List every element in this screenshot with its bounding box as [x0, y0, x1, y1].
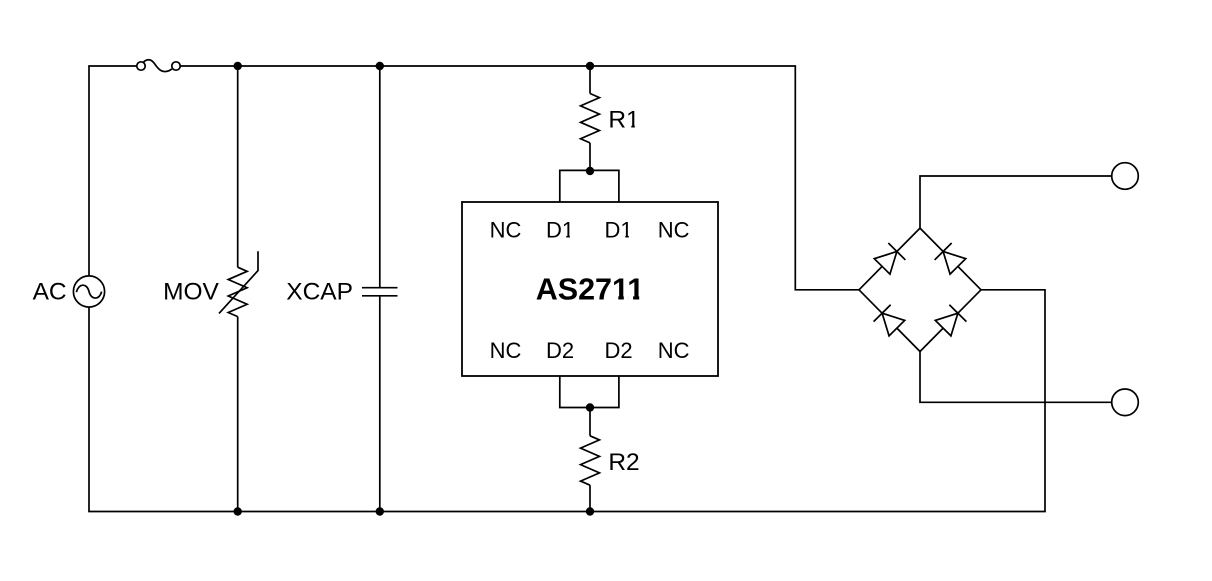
wire MOV branch lower: [237, 317, 239, 512]
svg-text:NC: NC: [490, 338, 522, 363]
svg-text:NC: NC: [490, 218, 522, 243]
junction dot IC bottom pins / R2: [586, 403, 594, 411]
varistor MOV diagonal stroke with tail: [219, 251, 258, 313]
junction dot top rail / MOV: [234, 62, 242, 70]
svg-text:NC: NC: [658, 338, 690, 363]
wire top-left horizontal segment: [88, 65, 137, 67]
terminal DC- circle: [1112, 389, 1139, 416]
junction dot bottom rail / R2: [586, 507, 594, 515]
junction dot bottom rail / XCAP: [376, 507, 384, 515]
wire XCAP branch lower: [379, 296, 381, 512]
AC source sine wave: [76, 285, 101, 298]
IC AS2711 body: [462, 202, 718, 376]
wire from top rail down to bridge left vertex: [795, 66, 859, 290]
glyph serif masks for digit 1: [563, 125, 644, 300]
wire XCAP branch upper: [379, 66, 381, 288]
wire bridge right vertex to bottom rail: [981, 290, 1045, 512]
bridge diode bottom-left triangle: [882, 313, 905, 336]
diode bridge diamond edge top-left: [859, 228, 920, 290]
svg-text:XCAP: XCAP: [286, 279, 353, 306]
resistor R1 zigzag body: [581, 94, 600, 143]
wire bridge top vertex to DC+ terminal: [920, 176, 1112, 228]
capacitor XCAP bottom plate: [362, 295, 398, 297]
svg-text:D2: D2: [546, 338, 574, 363]
resistor R2 zigzag body: [581, 436, 600, 485]
svg-text:MOV: MOV: [163, 279, 219, 306]
capacitor XCAP top plate: [362, 287, 398, 289]
wire R1 top lead: [589, 66, 591, 94]
svg-text:NC: NC: [658, 218, 690, 243]
diode bridge diamond edge top-right: [920, 228, 981, 290]
bridge diode top-right triangle: [943, 251, 966, 274]
wire R1 bottom lead: [589, 143, 591, 171]
diode bridge diamond edge bottom-right: [920, 290, 981, 352]
bridge diode bottom-left cathode bar: [874, 305, 891, 322]
bridge diode top-left cathode bar: [888, 243, 905, 260]
svg-text:D1: D1: [604, 218, 632, 243]
fuse left terminal circle: [137, 62, 145, 70]
wire R2 bottom lead: [589, 485, 591, 511]
junction dot top rail / XCAP: [376, 62, 384, 70]
junction dot R1 / IC top pins: [586, 167, 594, 175]
svg-text:AC: AC: [33, 279, 67, 306]
wire MOV branch upper: [237, 66, 239, 267]
wire top horizontal main: [180, 65, 796, 67]
svg-text:D1: D1: [546, 218, 574, 243]
bridge diode top-right cathode bar: [935, 243, 952, 260]
AC source circle: [73, 276, 104, 307]
wire IC top pin connector (D1-D1): [560, 170, 619, 202]
bridge diode top-left triangle: [874, 251, 897, 274]
bridge diode bottom-right cathode bar: [949, 305, 966, 322]
junction dot bottom rail / MOV: [234, 507, 242, 515]
terminal DC+ circle: [1112, 163, 1139, 190]
svg-text:D2: D2: [604, 338, 632, 363]
junction dot top rail / R1: [586, 62, 594, 70]
diode bridge diamond edge bottom-left: [859, 290, 920, 352]
fuse wavy element: [143, 60, 172, 72]
wire left vertical lower (AC to bottom): [88, 307, 90, 511]
fuse right terminal circle: [172, 62, 180, 70]
wire bridge bottom vertex to DC- terminal: [920, 352, 1112, 403]
varistor MOV zigzag body: [228, 267, 247, 316]
bridge diode bottom-right triangle: [935, 313, 958, 336]
wire IC bottom pin connector (D2-D2): [560, 376, 619, 408]
wire bottom horizontal main: [88, 511, 1046, 513]
svg-text:R2: R2: [608, 449, 639, 476]
svg-text:R1: R1: [608, 107, 639, 134]
wire left vertical upper (to AC source): [88, 66, 90, 276]
svg-text:AS2711: AS2711: [536, 273, 645, 307]
wire R2 top lead: [589, 408, 591, 436]
